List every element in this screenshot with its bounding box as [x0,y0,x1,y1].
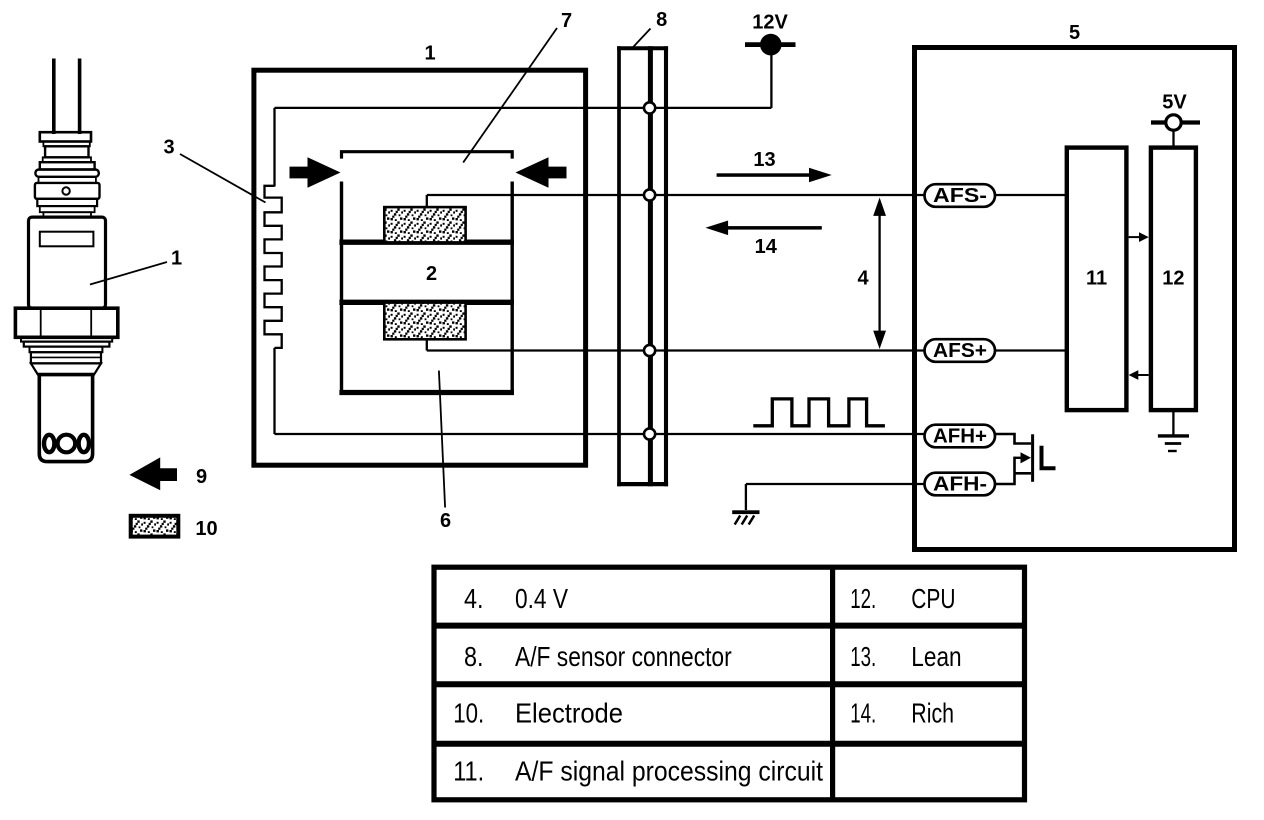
sensor vent hole [62,187,69,194]
sensor hex nut [15,308,117,337]
measure arrow 4 shaft [878,210,880,337]
svg-text:12.: 12. [850,583,876,614]
connector pin 4 (AFH+) [644,428,655,439]
measure arrow 4 bottom head [873,331,886,349]
sensor rounded band [35,170,98,177]
sensor band [37,199,97,206]
sensor lead wire right [78,59,82,135]
earth ground bar 2 [1165,442,1181,445]
12V supply node [760,34,782,56]
svg-text:2: 2 [426,263,437,285]
arrow 14 (rich direction) shaft [727,226,822,230]
leader line for label 6 [439,371,445,508]
wire: net AFS- horizontal (electrode to AFS- oval) [427,194,926,196]
transistor Q1 drain wire from AFH+ [995,434,1031,444]
wire: box 12 to earth ground [1172,410,1174,435]
svg-text:A/F signal processing circuit: A/F signal processing circuit [515,756,823,787]
box 7 element bottom line (item 6 region) [339,390,514,395]
svg-text:1: 1 [424,42,435,64]
svg-text:13: 13 [753,149,775,171]
svg-text:AFH-: AFH- [933,474,987,496]
box 12 (CPU) [1151,148,1196,411]
tip hole right [79,435,89,452]
svg-text:A/F sensor connector: A/F sensor connector [515,641,732,672]
12V supply crossbar [745,42,796,47]
legend table column divider [830,567,835,800]
svg-text:11: 11 [1086,267,1107,289]
transistor Q1 output L line [1042,446,1056,468]
svg-text:Electrode: Electrode [515,698,623,729]
sensor body label plate [40,232,94,247]
svg-text:12V: 12V [752,12,788,34]
arrow 11 to 12 head [1139,232,1149,242]
hex nut facet right [90,310,92,336]
leader line for label 7 [463,28,557,163]
transistor Q1 source wire [1015,472,1032,475]
svg-text:6: 6 [440,510,451,532]
arrow 11 to 12 shaft [1129,236,1141,238]
tip hole center [58,435,76,453]
heater zigzag (item 3) [265,186,282,348]
legend arrow 9 (exhaust gas) [129,457,177,490]
sensor top flange [40,132,91,141]
zirconia band (item 2) top line [339,240,514,245]
black arrow into box 7 right [516,157,567,188]
svg-text:Lean: Lean [911,641,961,672]
node AFS+ oval [925,339,996,362]
svg-text:10.: 10. [453,698,484,729]
svg-text:AFS-: AFS- [933,185,987,207]
svg-text:AFS+: AFS+ [933,340,987,362]
wire: net AFH+ horizontal (box1 to AFH+ oval) [275,433,926,435]
svg-text:4.: 4. [464,583,484,614]
sensor step [30,347,103,353]
wire: 5V to box 12 [1172,131,1174,147]
5V supply crossbar left [1151,120,1165,124]
transistor Q1 gate arrowhead [1021,452,1032,463]
svg-text:10: 10 [195,518,217,540]
earth ground bar 3 [1168,450,1177,452]
svg-text:Rich: Rich [911,698,954,729]
svg-text:13.: 13. [850,641,876,672]
measure arrow 4 top head [873,198,886,216]
legend table outer border [434,567,1025,800]
wire: AFH- oval to transistor [995,457,1015,484]
tip hole left [44,435,54,452]
sensor band [40,206,95,212]
chassis ground tick 2 [742,516,748,525]
svg-text:14: 14 [755,236,778,258]
wire: AFS+ oval to box 11 [995,349,1066,351]
5V supply crossbar right [1182,120,1200,124]
svg-text:14.: 14. [850,698,876,729]
connector bottom edge [617,482,668,486]
arrow 13 head [809,168,832,183]
svg-text:12: 12 [1162,267,1184,289]
svg-text:3: 3 [163,136,174,158]
transistor Q1 gate arrow shaft [1015,457,1023,459]
svg-text:9: 9 [196,466,207,488]
transistor Q1 body bar [1031,434,1034,482]
sensor tip shield [39,375,92,462]
wire: heater supply vertical inside box 1 [273,108,275,187]
sensor band [43,157,91,162]
wire: AFH- ground drop [745,484,747,510]
sensor washer [24,342,110,347]
node AFS- oval [925,184,996,207]
svg-text:1: 1 [171,247,182,269]
sensor lead wire left [52,59,56,135]
leader line for label 3 [180,154,266,203]
legend table row line 2 [434,681,1025,687]
sensor flange under nut [21,337,112,341]
sensor thread band [31,352,101,363]
connector pin 1 (heater supply) [644,102,655,113]
wire: AFS- oval to box 11 [995,194,1066,196]
box 7 element right line [511,182,514,393]
legend table row line 1 [434,623,1025,629]
node AFH+ oval [925,425,996,448]
A/F sensor pictorial (item 1) [15,59,117,462]
legend table row line 3 [434,741,1025,747]
wire: net AFH- horizontal (ground branch to AFH- oval) [746,483,926,485]
sensor neck [43,212,91,217]
thread line [31,356,101,358]
sensor band [43,142,89,147]
svg-text:4: 4 [857,268,869,290]
svg-text:8.: 8. [464,641,484,672]
connector middle mating line [648,46,653,486]
arrow 12 to 11 head [1129,370,1139,380]
electrode upper (item 10) [384,207,465,242]
sensor band [39,177,96,183]
black arrow into box 7 left [290,157,341,188]
wire: heater top horizontal (box1 to 12V drop) [275,107,772,109]
chassis ground bar [732,510,759,514]
svg-text:5V: 5V [1162,92,1187,114]
sensor taper [31,363,101,374]
wire: stub from lower electrode to AFS+ net [426,339,428,351]
chassis ground tick 3 [749,516,755,525]
svg-text:5: 5 [1069,22,1080,44]
connector pin 3 (AFS+) [644,345,655,356]
electrode lower (item 10) [384,303,465,340]
wire: net AFS+ horizontal (electrode to AFS+ oval) [427,349,926,351]
box 5 (ECU enclosure) [915,48,1235,550]
wire: 12V drop [770,53,772,108]
box 11 (A/F signal processing circuit) [1067,148,1127,411]
sensor band [40,162,95,169]
sensor main body [29,217,106,308]
zirconia band (item 2) bottom line [339,300,514,305]
svg-text:CPU: CPU [911,583,955,614]
sensor band [45,146,88,157]
chassis ground tick 1 [735,516,741,525]
svg-text:0.4 V: 0.4 V [515,583,568,614]
arrow 13 (lean direction) shaft [717,173,810,177]
svg-text:7: 7 [561,10,572,32]
AFH+ drive square wave [753,399,885,426]
box 1 (sensor schematic enclosure) [254,70,586,465]
box 7 element left line [340,182,343,393]
node AFH- oval [925,473,996,496]
hex nut facet left [40,310,42,336]
legend electrode swatch (item 10) [131,516,179,537]
connector pin 2 (AFS-) [644,189,655,200]
connector right vertical [664,46,668,486]
leader line for label 1 (sensor) [90,262,167,285]
arrow 14 head [705,221,728,236]
earth ground bar 1 [1158,434,1189,437]
arrow 12 to 11 shaft [1137,374,1149,376]
svg-text:11.: 11. [453,756,484,787]
A/F sensor connector (item 8) left vertical [617,46,621,486]
wire: stub from upper electrode to AFS- net [426,195,428,208]
wire: heater lower vertical inside box 1 [273,348,275,434]
sensor band with vent [35,183,100,199]
5V supply node circle [1166,115,1181,130]
svg-text:8: 8 [656,9,667,31]
leader line for label 8 [633,29,650,48]
svg-text:AFH+: AFH+ [933,426,987,448]
connector top edge [617,46,668,50]
box 7 element top line with corner drops [342,152,513,159]
